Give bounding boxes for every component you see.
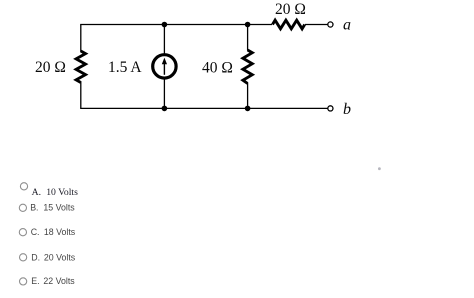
wire top rail	[80, 24, 272, 26]
svg-text:E.: E.	[31, 276, 39, 286]
stray faint dot	[378, 167, 381, 170]
svg-text:10 Volts: 10 Volts	[46, 187, 78, 198]
wire 40 ohm branch top lead	[247, 25, 249, 51]
resistor 20 ohm horizontal (zigzag)	[273, 20, 305, 29]
resistor 20 ohm left (zigzag)	[76, 51, 85, 83]
wire top rail right segment to terminal a	[305, 24, 328, 26]
svg-text:a: a	[343, 17, 351, 34]
svg-text:18 Volts: 18 Volts	[44, 227, 76, 237]
svg-text:20 Ω: 20 Ω	[35, 59, 66, 76]
wire left vertical (bottom lead of R 20 ohm)	[80, 82, 82, 109]
current source 1.5 A (circle)	[153, 55, 176, 78]
svg-text:D.: D.	[31, 252, 40, 262]
terminal b (open circle)	[328, 106, 333, 111]
junction dot top at 40 ohm	[245, 22, 251, 28]
radio button E	[20, 278, 27, 285]
wire left vertical (top lead of R 20 ohm)	[80, 25, 82, 53]
wire current source branch bottom lead	[163, 79, 165, 108]
svg-text:B.: B.	[30, 202, 38, 212]
junction dot top at current source	[162, 22, 168, 28]
radio button A	[20, 183, 27, 190]
svg-text:22 Volts: 22 Volts	[43, 276, 75, 286]
svg-text:A.: A.	[32, 187, 41, 198]
current source arrow (up)	[163, 63, 165, 75]
svg-text:20 Ω: 20 Ω	[275, 1, 306, 18]
svg-text:b: b	[343, 101, 351, 118]
radio button C	[19, 229, 26, 236]
terminal a (open circle)	[328, 22, 333, 27]
svg-text:15 Volts: 15 Volts	[43, 202, 75, 212]
junction dot bottom at current source	[162, 106, 168, 112]
svg-text:1.5 A: 1.5 A	[108, 59, 142, 76]
svg-text:20 Volts: 20 Volts	[44, 252, 76, 262]
svg-text:C.: C.	[31, 227, 40, 237]
wire 40 ohm branch bottom lead	[247, 83, 249, 108]
junction dot bottom at 40 ohm	[245, 106, 251, 112]
svg-text:40 Ω: 40 Ω	[202, 60, 233, 77]
wire current source branch top lead	[163, 25, 165, 55]
radio button D	[20, 254, 27, 261]
radio button B	[19, 204, 26, 211]
wire bottom rail	[80, 107, 328, 109]
resistor 40 ohm (zigzag)	[243, 50, 252, 84]
